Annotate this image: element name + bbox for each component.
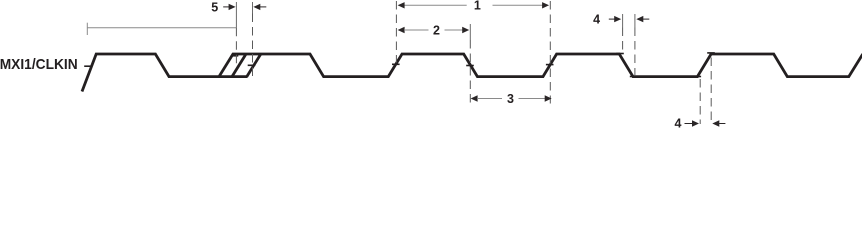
dimension 5 right-pointing arrow [223, 6, 229, 8]
dimension 5 reference line from first edge [87, 27, 236, 29]
node tick: rising edge at dimension 1 left [392, 63, 400, 65]
dimension 2/3 dashed extension [469, 40, 471, 104]
dimension 1 right arrowhead [542, 2, 549, 8]
dimension 1 line left segment [404, 4, 467, 6]
node tick: first rising edge mid-level [84, 65, 92, 67]
dimension 2 left arrowhead [398, 27, 405, 33]
svg-text:2: 2 [433, 23, 440, 37]
wire: low-level extension under jitter edges [219, 75, 248, 78]
extension bar solid: jitter late edge [252, 2, 254, 14]
svg-text:4: 4 [593, 13, 600, 27]
dimension 2 right arrowhead [462, 27, 469, 33]
node tick: jitter edge 1 top [231, 55, 239, 57]
wire: jitter rising edge 2 [232, 54, 246, 77]
svg-text:1: 1 [474, 0, 481, 13]
dimension 4 top right-pointing arrow [609, 18, 615, 20]
wire: jitter rising edge 3 [247, 54, 261, 77]
dimension 3 line right segment [519, 98, 546, 100]
dimension 5 left-pointing arrow [260, 6, 266, 8]
dimension 4 bottom right-pointing arrow [685, 123, 693, 125]
svg-text:3: 3 [507, 92, 514, 106]
dimension 3 left arrowhead [471, 95, 478, 101]
dimension 4 top left dashed [622, 28, 624, 53]
extension dashed: jitter early edge [235, 28, 237, 66]
dimension 3 line left segment [477, 98, 502, 100]
dimension 4 top right dashed [634, 28, 636, 76]
dimension 4 top right bar [634, 14, 636, 28]
dimension 4 bottom left dashed [699, 79, 701, 124]
svg-text:MXI1/CLKIN: MXI1/CLKIN [0, 56, 78, 73]
dimension 4 top left bar [622, 14, 624, 28]
dimension 1 left dashed extension [395, 1, 397, 63]
extension bar solid: jitter early edge [235, 2, 237, 28]
dimension 1 line right segment [493, 4, 543, 6]
node tick: jitter edge 3 mid [248, 64, 256, 66]
dimension 4 bottom right dashed [710, 58, 712, 125]
node tick: falling edge at dimension 2 right [466, 65, 474, 67]
svg-text:4: 4 [675, 117, 682, 131]
dimension 4 bottom left-pointing arrow [719, 123, 725, 125]
dimension 1 right dashed extension [549, 1, 551, 104]
node tick: rise start corner (dimension 4 bottom) [694, 76, 702, 78]
dimension 2 line right segment [445, 29, 463, 31]
node tick: fall end corner (dimension 4 top) [630, 76, 638, 78]
node tick: rise end corner (dimension 4 bottom) [707, 52, 715, 54]
node tick: fall start corner (dimension 4 top) [616, 53, 624, 55]
extension dashed: jitter late edge [252, 14, 254, 77]
dimension 3 right arrowhead [545, 95, 552, 101]
dimension 1 left arrowhead [398, 2, 405, 8]
dimension 2 end bar [469, 24, 471, 40]
node tick: rising edge at dimension 1 right [546, 64, 554, 66]
dimension 4 top left-pointing arrow [643, 18, 649, 20]
wire: main clock waveform trace [82, 54, 862, 92]
dimension 2 line left segment [404, 29, 429, 31]
dimension 5 reference end bar [86, 23, 88, 35]
svg-text:5: 5 [211, 1, 218, 15]
